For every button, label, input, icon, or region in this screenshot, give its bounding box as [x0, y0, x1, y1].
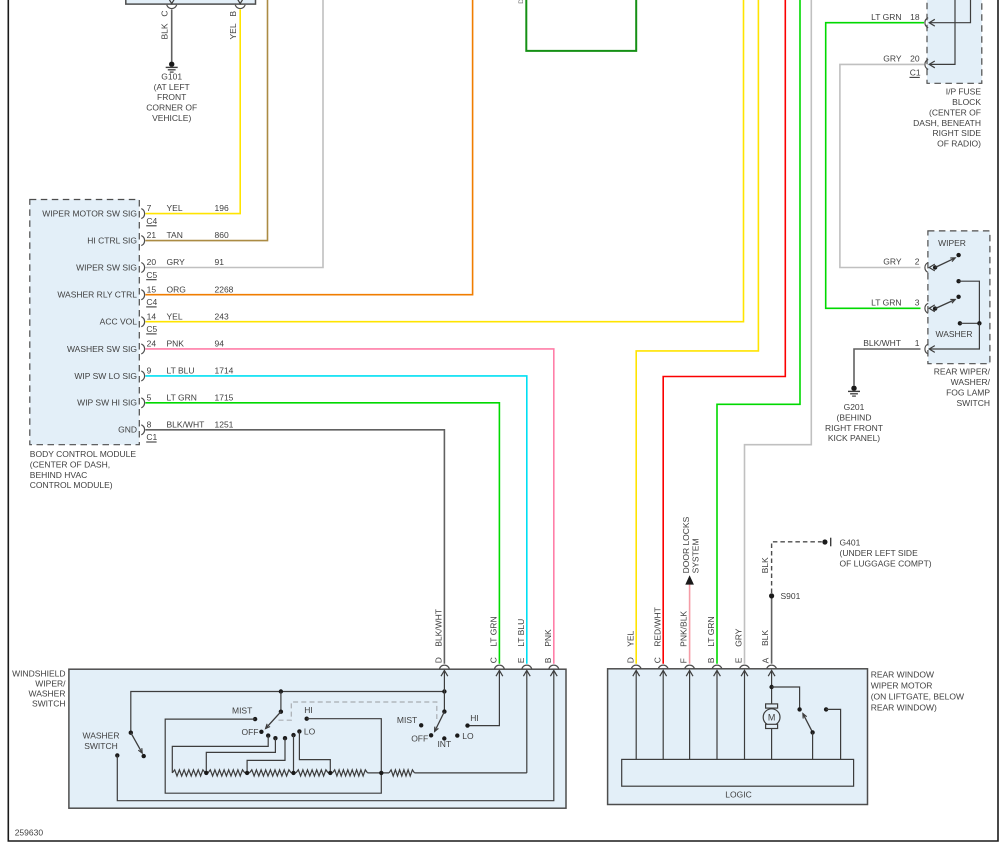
wire GRY (to motor pin E) [745, 0, 812, 664]
svg-text:WASHER: WASHER [83, 731, 120, 741]
right contact LO [455, 733, 459, 737]
park switch right contact [824, 707, 828, 711]
wire BLK/WHT 1251 (BCM pin 8 to washer switch pin D) [145, 430, 444, 664]
LOGIC module box [622, 759, 854, 786]
svg-text:DOOR LOCKS: DOOR LOCKS [681, 516, 691, 573]
svg-text:(CENTER OF: (CENTER OF [929, 107, 981, 117]
svg-text:C5: C5 [146, 270, 157, 280]
pin E wire to resistor ladder [526, 670, 528, 773]
svg-text:OFF: OFF [242, 727, 259, 737]
svg-text:SYSTEM: SYSTEM [691, 538, 701, 573]
svg-text:BLK: BLK [760, 557, 770, 573]
svg-text:14: 14 [147, 311, 157, 321]
svg-text:91: 91 [215, 257, 225, 267]
svg-text:GND: GND [118, 425, 137, 435]
svg-text:DASH, BENEATH: DASH, BENEATH [913, 118, 981, 128]
left contact d [291, 733, 295, 737]
svg-text:20: 20 [147, 257, 157, 267]
junction dot left pivot [279, 689, 283, 693]
pin D wire to right pivot [443, 670, 445, 711]
washer switch pin C connector arc [494, 665, 504, 669]
svg-text:18: 18 [910, 12, 920, 22]
left contact LO [297, 729, 301, 733]
svg-text:C5: C5 [146, 324, 157, 334]
svg-text:B: B [228, 11, 238, 17]
svg-text:BLK/WHT: BLK/WHT [167, 419, 205, 429]
svg-text:ACC VOL: ACC VOL [100, 317, 138, 327]
svg-text:REAR WINDOW): REAR WINDOW) [871, 703, 937, 713]
svg-text:RIGHT SIDE: RIGHT SIDE [933, 128, 982, 138]
left contact HI [305, 717, 309, 721]
left contact OFF [259, 730, 263, 734]
park switch upper contact [797, 707, 801, 711]
wire PNK/BLK (motor pin F to door locks system) [689, 584, 691, 664]
rear switch upper contact to common [956, 279, 960, 283]
left contact b [273, 736, 277, 740]
svg-text:2268: 2268 [215, 284, 234, 294]
svg-text:WIPER: WIPER [938, 238, 966, 248]
motor pin E internal wire to logic [744, 670, 746, 759]
svg-text:OF LUGGAGE COMPT): OF LUGGAGE COMPT) [840, 558, 932, 568]
motor pin A internal wire [771, 670, 773, 704]
svg-text:BLK: BLK [760, 630, 770, 646]
svg-text:LT BLU: LT BLU [516, 619, 526, 647]
park switch feed wire [772, 687, 800, 709]
motor pin A connector arc [767, 665, 777, 669]
pin B arrow (module bottom edge) [237, 0, 244, 4]
motor pin B arrow [714, 670, 721, 676]
svg-text:M: M [768, 713, 776, 723]
motor pin F arrow [686, 670, 693, 676]
rear switch pin 2 connector arc [925, 263, 928, 273]
svg-text:GRY: GRY [167, 257, 186, 267]
svg-text:7: 7 [147, 203, 152, 213]
svg-text:FRONT: FRONT [157, 92, 186, 102]
right contact OFF [429, 733, 433, 737]
svg-text:1714: 1714 [215, 366, 234, 376]
wire YEL (to motor pin D) [636, 0, 758, 664]
svg-text:TAN: TAN [167, 230, 183, 240]
svg-text:C: C [652, 657, 662, 663]
park switch pivot [810, 730, 814, 734]
wire ORG 2268 (BCM pin 15, up off page) [145, 0, 472, 295]
fuse block internal wire to pin 18 [929, 0, 971, 23]
svg-text:YEL: YEL [228, 23, 238, 39]
washer switch pin E connector arc [522, 665, 532, 669]
svg-text:C4: C4 [146, 216, 157, 226]
svg-text:3: 3 [915, 297, 920, 307]
resistor ladder junction at x=247.1 [245, 771, 249, 775]
BCM pin 21 connector arc [141, 236, 144, 246]
svg-text:C: C [489, 657, 499, 663]
left contact c wire [247, 738, 285, 773]
svg-text:PNK/BLK: PNK/BLK [679, 611, 689, 647]
right contact HI [465, 723, 469, 727]
svg-text:LT GRN: LT GRN [706, 616, 716, 646]
left contact c [283, 736, 287, 740]
svg-text:5: 5 [147, 392, 152, 402]
rear switch wiper blade (pin 2) [933, 265, 937, 269]
washer switch pin D arrow [441, 670, 448, 676]
motor pin C arrow [660, 670, 667, 676]
resistor ladder junction at x=293.5 [291, 771, 295, 775]
wire BLK (S901 to motor pin A) [771, 596, 773, 664]
left contact d wire [293, 735, 295, 773]
svg-text:WIPER SW SIG: WIPER SW SIG [76, 262, 137, 272]
svg-text:WINDSHIELD: WINDSHIELD [12, 669, 65, 679]
svg-text:C4: C4 [146, 297, 157, 307]
svg-text:15: 15 [147, 284, 157, 294]
wiper switch left pivot drop [280, 692, 282, 712]
motor pin D internal wire to logic [635, 670, 637, 759]
svg-text:G201: G201 [844, 402, 865, 412]
washer switch pin C arrow [496, 670, 503, 676]
svg-text:D: D [625, 657, 635, 663]
svg-text:PNK: PNK [167, 339, 185, 349]
svg-text:1251: 1251 [215, 419, 234, 429]
svg-text:MIST: MIST [397, 715, 417, 725]
washer blade [131, 733, 142, 753]
motor M body [763, 709, 780, 726]
svg-text:24: 24 [147, 339, 157, 349]
svg-text:(UNDER LEFT SIDE: (UNDER LEFT SIDE [840, 548, 919, 558]
motor pin C internal wire to logic [662, 670, 664, 759]
svg-text:21: 21 [147, 230, 157, 240]
svg-text:B: B [543, 657, 553, 663]
svg-text:INT: INT [437, 739, 451, 749]
body control module box (dashed) [30, 200, 140, 445]
svg-text:I/P FUSE: I/P FUSE [946, 87, 982, 97]
wire LT GRN (to motor pin B) [717, 0, 800, 664]
svg-text:CORNER OF: CORNER OF [146, 103, 197, 113]
svg-text:E: E [734, 657, 744, 663]
motor pin F internal wire to logic [689, 670, 691, 759]
svg-text:(ON LIFTGATE, BELOW: (ON LIFTGATE, BELOW [871, 692, 964, 702]
svg-text:LT BLU: LT BLU [167, 366, 195, 376]
svg-text:243: 243 [215, 311, 229, 321]
BCM pin 24 connector arc [141, 344, 144, 354]
rear switch washer contact [958, 321, 962, 325]
fuse block pin 20 arrow [929, 61, 935, 68]
svg-text:F: F [679, 658, 689, 663]
resistor ladder junction at x=330.3 [328, 771, 332, 775]
resistor ladder junction at x=381.3 [379, 771, 383, 775]
svg-text:WIPER MOTOR SW SIG: WIPER MOTOR SW SIG [42, 209, 137, 219]
wire LT GRN 18 (fuse block to rear switch pin 3) [826, 23, 924, 309]
motor pin D connector arc [631, 665, 641, 669]
rear switch pin 3 arrow [929, 305, 935, 312]
park switch blade [803, 714, 813, 733]
wire LT GRN 1715 (BCM pin 5 to washer switch pin C) [145, 403, 499, 664]
svg-text:SWITCH: SWITCH [956, 398, 990, 408]
BCM pin 5 connector arc [141, 398, 144, 408]
windshield wiper/washer switch box [69, 669, 566, 808]
svg-text:BODY CONTROL MODULE: BODY CONTROL MODULE [30, 449, 137, 459]
svg-text:(CENTER OF DASH,: (CENTER OF DASH, [30, 459, 110, 469]
svg-text:(BEHIND: (BEHIND [837, 412, 872, 422]
ground G101 symbol [169, 61, 174, 66]
wire GRY 91 (BCM pin 20, up off page) [145, 0, 323, 268]
svg-text:HI: HI [304, 705, 313, 715]
svg-text:GRY: GRY [883, 257, 902, 267]
svg-text:G401: G401 [840, 538, 861, 548]
svg-text:GRY: GRY [734, 628, 744, 647]
svg-text:BLK: BLK [160, 23, 170, 39]
svg-text:VEHICLE): VEHICLE) [152, 113, 191, 123]
svg-text:RED/WHT: RED/WHT [652, 607, 662, 647]
svg-text:WIP SW LO SIG: WIP SW LO SIG [74, 371, 137, 381]
svg-text:WASHER RLY CTRL: WASHER RLY CTRL [57, 290, 137, 300]
front wiper motor module box (cut off at top) [126, 0, 256, 4]
svg-text:LO: LO [304, 726, 316, 736]
ground G201 symbol [851, 386, 856, 391]
svg-text:LO: LO [462, 731, 474, 741]
svg-text:SWITCH: SWITCH [32, 698, 66, 708]
svg-text:D: D [434, 657, 444, 663]
motor pin B internal wire to logic [716, 670, 718, 759]
svg-text:REAR WIPER/: REAR WIPER/ [934, 367, 991, 377]
svg-text:C1: C1 [910, 68, 921, 78]
washer switch pin B arrow [550, 670, 557, 676]
svg-text:B: B [706, 657, 716, 663]
motor M bottom brush [766, 724, 778, 728]
svg-text:LT GRN: LT GRN [167, 392, 197, 402]
wiper switch left pivot [279, 710, 283, 714]
svg-text:D: D [518, 0, 525, 4]
I/P fuse block box (dashed, cut off at top) [927, 0, 982, 83]
rear switch washer blade (pin 3) [933, 306, 937, 310]
svg-text:YEL: YEL [625, 630, 635, 646]
BCM pin 14 connector arc [141, 317, 144, 327]
svg-text:(AT LEFT: (AT LEFT [154, 82, 190, 92]
svg-text:G101: G101 [161, 71, 182, 81]
wire BLK (pin C to G101) [171, 9, 173, 61]
left contact MIST [253, 717, 257, 721]
svg-text:WASHER: WASHER [936, 329, 973, 339]
BCM pin 8 connector arc [141, 425, 144, 435]
svg-text:C1: C1 [146, 432, 157, 442]
motor pin E connector arc [740, 665, 750, 669]
pin C wire to right HI contact [468, 670, 500, 725]
junction block box (green, cut off at top) [526, 0, 636, 51]
wiper switch left blade [266, 712, 281, 729]
svg-text:1: 1 [915, 338, 920, 348]
rear switch pin 1 arrow [929, 346, 935, 353]
motor pin E arrow [741, 670, 748, 676]
BCM pin 7 connector arc [141, 209, 144, 219]
wire RED/WHT (to motor pin C) [663, 0, 785, 664]
svg-text:LT GRN: LT GRN [871, 297, 901, 307]
washer switch pin E arrow [523, 670, 530, 676]
left MIST wire [165, 719, 381, 793]
washer switch pin B connector arc [549, 665, 559, 669]
svg-text:FOG LAMP: FOG LAMP [946, 388, 990, 398]
resistor ladder (6 resistors) [172, 770, 527, 776]
BCM pin 20 connector arc [141, 263, 144, 273]
wire PNK 94 (BCM pin 24 to washer switch pin B) [145, 349, 553, 664]
svg-text:860: 860 [215, 230, 229, 240]
svg-text:GRY: GRY [883, 54, 902, 64]
rear switch pin 1 connector arc [925, 344, 928, 354]
svg-text:196: 196 [215, 203, 229, 213]
svg-text:YEL: YEL [167, 203, 183, 213]
wire TAN 860 (BCM pin 21, up off page) [145, 0, 267, 241]
svg-text:BEHIND HVAC: BEHIND HVAC [30, 470, 87, 480]
svg-text:OFF: OFF [411, 733, 428, 743]
svg-text:20: 20 [910, 54, 920, 64]
motor pin C connector arc [658, 665, 668, 669]
svg-text:1715: 1715 [215, 392, 234, 402]
svg-text:94: 94 [215, 339, 225, 349]
wire GRY 20 (fuse block to rear switch pin 2) [840, 64, 924, 267]
wire YEL 196 (BCM pin 7 to module pin B) [145, 9, 240, 213]
right contact MIST [419, 723, 423, 727]
rear switch pin 3 connector arc [925, 303, 928, 313]
motor M top brush [766, 704, 778, 708]
svg-text:2: 2 [915, 257, 920, 267]
park switch right contact wire to logic [826, 709, 841, 759]
svg-text:KICK PANEL): KICK PANEL) [828, 433, 880, 443]
fuse block pin 18 connector arc [925, 18, 928, 28]
washer switch common wire (pin D bus) [131, 692, 445, 733]
rear wiper/washer/fog lamp switch box (dashed) [928, 231, 990, 364]
svg-text:SWITCH: SWITCH [84, 741, 118, 751]
washer blade pivot [129, 731, 133, 735]
svg-text:WIP SW HI SIG: WIP SW HI SIG [77, 398, 137, 408]
left contact b wire [206, 738, 275, 773]
wire YEL 243 (BCM pin 14, up off page) [145, 0, 743, 322]
svg-text:LT GRN: LT GRN [871, 12, 901, 22]
svg-text:A: A [761, 657, 771, 663]
svg-text:WIPER MOTOR: WIPER MOTOR [871, 681, 933, 691]
door locks arrow head [685, 575, 694, 584]
svg-text:WASHER/: WASHER/ [951, 377, 991, 387]
washer left contact [115, 753, 119, 757]
svg-text:S901: S901 [781, 591, 801, 601]
right contact INT [442, 736, 446, 740]
svg-text:REAR WINDOW: REAR WINDOW [871, 670, 934, 680]
svg-text:BLK/WHT: BLK/WHT [434, 609, 444, 647]
left HI wire [307, 719, 382, 773]
pin C connector arc [167, 5, 177, 9]
rear window wiper motor box [608, 669, 868, 805]
park switch pivot wire to logic [812, 732, 814, 759]
BCM pin 15 connector arc [141, 290, 144, 300]
fuse block pin 18 arrow [929, 19, 935, 26]
motor M wire to logic [771, 729, 773, 760]
svg-text:PNK: PNK [543, 629, 553, 647]
svg-text:HI CTRL SIG: HI CTRL SIG [87, 236, 137, 246]
wire BLK/WHT (rear switch pin 1 to G201) [854, 349, 921, 385]
svg-text:RIGHT FRONT: RIGHT FRONT [825, 423, 883, 433]
resistor ladder junction at x=206.3 [204, 771, 208, 775]
pin C arrow (module bottom edge) [168, 0, 175, 4]
svg-text:WASHER: WASHER [29, 688, 66, 698]
wire LT BLU 1714 (BCM pin 9 to washer switch pin E) [145, 376, 526, 664]
BCM pin 9 connector arc [141, 371, 144, 381]
left contact a wire [172, 736, 268, 773]
svg-text:CONTROL MODULE): CONTROL MODULE) [30, 480, 113, 490]
svg-text:OF RADIO): OF RADIO) [937, 139, 981, 149]
svg-text:WIPER/: WIPER/ [35, 679, 66, 689]
left LO wire [299, 731, 330, 773]
motor pin B connector arc [712, 665, 722, 669]
svg-text:C: C [160, 10, 170, 16]
svg-text:259630: 259630 [15, 827, 44, 837]
junction dot pin D [442, 689, 446, 693]
pin A junction dot [769, 685, 773, 689]
svg-text:BLK/WHT: BLK/WHT [863, 338, 901, 348]
svg-text:HI: HI [470, 713, 479, 723]
fuse block pin 20 connector arc [925, 59, 928, 69]
right wiper blade [435, 712, 445, 732]
splice S901 [769, 593, 774, 598]
left contact a [266, 733, 270, 737]
svg-text:9: 9 [147, 366, 152, 376]
pin B connector arc [235, 5, 245, 9]
ground G401 symbol [822, 539, 827, 544]
svg-text:ORG: ORG [167, 284, 186, 294]
svg-text:MIST: MIST [232, 706, 252, 716]
svg-text:LT GRN: LT GRN [489, 616, 499, 646]
svg-text:LOGIC: LOGIC [725, 790, 751, 800]
right pivot dot [442, 709, 446, 713]
svg-text:8: 8 [147, 419, 152, 429]
motor pin F connector arc [685, 665, 695, 669]
rear switch pin 2 arrow [929, 264, 935, 271]
rear switch common to pin 1 [929, 323, 979, 349]
motor pin A arrow [768, 670, 775, 676]
washer output wire (to pin B) [117, 670, 554, 800]
svg-text:E: E [516, 657, 526, 663]
fuse block internal wire to pin 20 [929, 0, 955, 64]
washer blade contact [142, 754, 146, 758]
svg-text:WASHER SW SIG: WASHER SW SIG [67, 344, 137, 354]
wire BLK dashed (S901 to G401) [772, 542, 822, 593]
mechanical linkage (dashed) [279, 702, 437, 720]
svg-text:YEL: YEL [167, 311, 183, 321]
motor pin D arrow [633, 670, 640, 676]
svg-text:BLOCK: BLOCK [952, 97, 981, 107]
washer switch pin D connector arc [439, 665, 449, 669]
